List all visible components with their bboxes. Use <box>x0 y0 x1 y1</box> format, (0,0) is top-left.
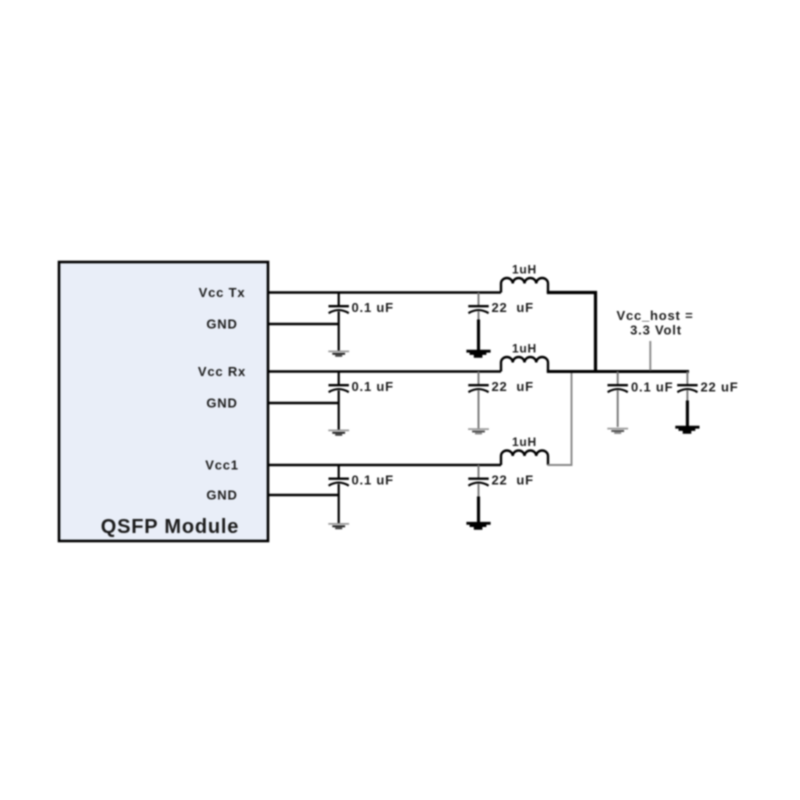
svg-text:GND: GND <box>206 396 237 411</box>
capacitor C1 lower stem <box>338 312 340 351</box>
ground arrow for C2 <box>466 350 490 358</box>
ground for C7 <box>607 428 628 430</box>
capacitor C2 thick lead <box>477 320 480 351</box>
svg-text:0.1 uF: 0.1 uF <box>352 379 394 394</box>
capacitor C8 thick lead <box>686 401 689 427</box>
capacitor C6 mid stem <box>478 484 480 497</box>
svg-text:0.1 uF: 0.1 uF <box>352 300 394 315</box>
capacitor C3 lower stem <box>338 391 340 430</box>
capacitor C8 22uF upper stem <box>686 372 688 385</box>
capacitor C3 plates <box>329 384 349 386</box>
capacitor C7 plates <box>608 384 628 386</box>
inductor L2 <box>501 357 548 371</box>
capacitor C3 0.1uF stem <box>338 372 340 385</box>
capacitor C6 22uF upper stem <box>478 465 480 478</box>
capacitor C7 0.1uF stem <box>617 372 619 385</box>
svg-text:22 uF: 22 uF <box>492 473 534 488</box>
inductor L3 <box>501 451 548 465</box>
svg-text:1uH: 1uH <box>512 435 537 449</box>
svg-text:GND: GND <box>206 317 237 332</box>
svg-text:3.3 Volt: 3.3 Volt <box>630 323 682 338</box>
capacitor C1 0.1uF stem <box>338 293 340 306</box>
ground arrow for C8 <box>675 426 699 434</box>
wire Vcc_host stem <box>649 341 651 371</box>
capacitor C6 thick lead <box>477 497 480 523</box>
capacitor C4 plates <box>468 384 488 386</box>
QSFP module body U1 <box>59 262 268 541</box>
svg-text:QSFP Module: QSFP Module <box>101 516 239 538</box>
svg-text:1uH: 1uH <box>512 342 537 356</box>
wire L1 to corner and down to Vcc Rx bus <box>547 293 596 371</box>
svg-text:0.1 uF: 0.1 uF <box>631 380 673 395</box>
capacitor C6 plates <box>468 478 488 480</box>
svg-text:Vcc1: Vcc1 <box>205 458 239 473</box>
capacitor C4 lower stem <box>478 391 480 429</box>
capacitor C8 lower stem <box>686 391 688 402</box>
capacitor C5 plates <box>329 478 349 480</box>
ground for C1 <box>328 350 349 352</box>
capacitor C2 plates <box>468 305 488 307</box>
capacitor C4 22uF upper stem <box>478 372 480 385</box>
ground arrow for C6 <box>466 522 490 530</box>
wire Vcc1 net <box>268 464 501 466</box>
ground for C5 <box>328 523 349 525</box>
wire GND 1 <box>268 323 340 325</box>
capacitor C2 22uF upper stem <box>478 293 480 306</box>
capacitor C5 0.1uF stem <box>338 465 340 478</box>
wire GND 2 <box>268 402 340 404</box>
svg-text:22 uF: 22 uF <box>492 379 534 394</box>
inductor L1 <box>501 278 548 293</box>
svg-text:Vcc Tx: Vcc Tx <box>199 285 246 300</box>
ground for C4 <box>468 428 489 430</box>
wire Vcc Tx net <box>268 291 501 294</box>
capacitor C7 lower stem <box>617 391 619 428</box>
ground for C3 <box>328 429 349 431</box>
svg-text:22 uF: 22 uF <box>492 300 534 315</box>
capacitor C2 mid stem <box>478 312 480 321</box>
svg-text:1uH: 1uH <box>512 263 537 277</box>
wire Vcc Rx net <box>268 370 501 372</box>
svg-text:GND: GND <box>206 488 237 503</box>
capacitor C5 lower stem <box>338 484 340 523</box>
wire L3 up to Vcc Rx bus <box>548 373 572 465</box>
wire Vcc Rx bus to host <box>547 370 689 373</box>
capacitor C1 plates <box>329 305 349 307</box>
capacitor C8 plates <box>677 384 697 386</box>
svg-text:0.1 uF: 0.1 uF <box>352 473 394 488</box>
svg-text:Vcc Rx: Vcc Rx <box>198 364 246 379</box>
svg-text:Vcc_host =: Vcc_host = <box>616 308 693 323</box>
svg-text:22 uF: 22 uF <box>701 380 739 395</box>
wire GND 3 <box>268 494 340 496</box>
